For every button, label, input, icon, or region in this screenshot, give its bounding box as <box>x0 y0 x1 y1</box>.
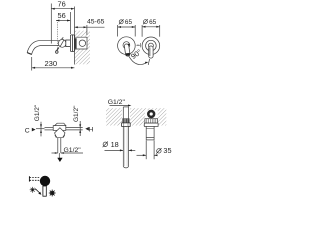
dimension Ø18 <box>103 140 136 152</box>
G1/2 small dimension (right) <box>79 121 81 136</box>
dimension 45-65 <box>74 18 104 35</box>
rotation arrow <box>35 189 39 193</box>
lever 2 <box>149 46 153 58</box>
lever stick <box>56 47 59 51</box>
schematic: outlet stub <box>52 138 84 162</box>
outlet flow arrow <box>58 153 60 158</box>
knob <box>40 176 50 186</box>
front view circle 2 (Ø65) <box>142 37 160 58</box>
concealed valve body in wall <box>74 37 87 49</box>
svg-text:G1/2": G1/2" <box>64 147 82 154</box>
valve body (plan view, Ø35) <box>144 111 158 140</box>
dimension 76 <box>51 0 74 43</box>
sun symbol <box>30 187 36 193</box>
dimension Ø35 <box>137 141 172 160</box>
dimension 56 <box>56 11 70 49</box>
svg-text:G1/2": G1/2" <box>108 99 126 106</box>
outlet pipe through wall <box>122 107 131 168</box>
temperature mixing icon <box>29 176 55 197</box>
escutcheon (side view) <box>70 35 74 52</box>
schematic: cold inlet <box>25 104 53 136</box>
svg-text:65: 65 <box>125 19 133 26</box>
dashed hot position <box>30 177 41 179</box>
svg-text:65: 65 <box>149 19 157 26</box>
top ring <box>148 111 154 117</box>
G1/2 small dimension (left) <box>40 122 42 137</box>
lower tube <box>122 126 124 166</box>
svg-text:G1/2": G1/2" <box>73 105 80 122</box>
svg-text:35: 35 <box>163 146 171 155</box>
cutout for valve body <box>145 110 158 125</box>
dimension Ø65 (circle 2) <box>142 19 160 37</box>
cutout for outlet pipe <box>122 108 130 126</box>
front view circle 1 (Ø65) <box>118 37 136 57</box>
nut under ring <box>145 119 158 123</box>
90 degree swing arc <box>129 47 150 65</box>
dimension 230 <box>32 57 75 71</box>
lever 1 <box>124 44 130 57</box>
svg-text:230: 230 <box>44 59 57 68</box>
dimension Ø65 (circle 1) <box>118 19 136 37</box>
sleeve <box>146 126 154 139</box>
schematic: hot inlet <box>66 105 94 136</box>
thread section <box>123 119 130 123</box>
svg-text:45-65: 45-65 <box>87 18 105 25</box>
wall section (side view) <box>74 31 90 65</box>
snowflake <box>49 190 56 197</box>
wall section (bottom, plan view) <box>106 108 166 125</box>
wall face line <box>74 7 76 65</box>
handle knob (side view) <box>56 37 67 53</box>
svg-text:C: C <box>25 127 30 134</box>
svg-text:56: 56 <box>57 11 65 20</box>
handle cylinder (side view) <box>66 40 71 47</box>
stem <box>43 186 46 196</box>
schematic: mixer body <box>53 123 66 137</box>
flange <box>144 123 158 126</box>
svg-text:76: 76 <box>57 0 65 8</box>
svg-text:18: 18 <box>111 140 119 149</box>
G1/2 label (outlet pipe) <box>108 99 132 107</box>
svg-text:G1/2": G1/2" <box>34 104 41 121</box>
spout (side view) <box>27 41 74 55</box>
nut <box>122 123 131 127</box>
svg-text:H: H <box>89 126 94 133</box>
pull-out mark between circles <box>136 43 140 47</box>
